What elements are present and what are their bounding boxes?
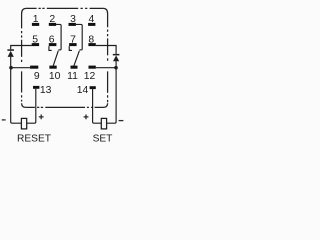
wire pin13 down to RESET coil <box>27 89 36 123</box>
polarity minus (right) <box>119 120 124 122</box>
wire pin14 down to SET coil <box>93 89 102 123</box>
pin 5 pad <box>32 43 39 46</box>
pin 8 pad <box>88 43 95 46</box>
wire pin3 to contact pivot <box>76 24 82 49</box>
wire pin2 to contact pivot <box>56 24 61 49</box>
svg-text:9: 9 <box>34 71 40 82</box>
pin 9 pad <box>30 66 38 69</box>
right junction node <box>114 66 118 70</box>
wires and components <box>11 24 116 123</box>
wire junction to pin9 <box>11 67 31 69</box>
svg-text:14: 14 <box>77 85 89 96</box>
SET coil <box>101 118 106 128</box>
wire pin8 to right diode <box>96 46 116 54</box>
RESET coil <box>21 118 26 128</box>
pin 1 pad <box>32 23 39 26</box>
polarity minus (left) <box>2 119 6 121</box>
pin 3 pad <box>69 23 76 26</box>
contact pivot bar (pin3) <box>80 49 83 51</box>
left diode D1 anode triangle <box>8 51 14 57</box>
pin 4 pad <box>88 23 95 26</box>
pin 7 pad <box>69 43 77 46</box>
contact pivot bar (pin2) <box>58 49 61 51</box>
wire junction to pin12 <box>96 67 116 69</box>
polarity plus (left) <box>39 115 44 120</box>
left border <box>21 14 23 102</box>
pin 10 pad <box>49 66 56 69</box>
svg-text:SET: SET <box>93 134 113 145</box>
top border <box>22 8 27 13</box>
wire right column down to SET coil <box>107 68 116 124</box>
wire right diode to junction <box>115 61 117 67</box>
pin 14 pad <box>90 86 96 89</box>
polarity plus (right) <box>84 115 89 120</box>
svg-text:10: 10 <box>49 71 61 82</box>
left diode D1 cathode bar <box>7 49 14 51</box>
pin 12 pad <box>89 66 96 69</box>
pin 6 pad <box>49 43 57 46</box>
movable contact arm to pin 11 <box>74 51 80 66</box>
right diode D2 anode triangle <box>113 55 119 61</box>
wire left column down to RESET coil <box>11 68 22 124</box>
contact NO stub from pin 7 <box>69 46 72 50</box>
svg-text:13: 13 <box>40 85 52 96</box>
svg-text:RESET: RESET <box>17 134 51 145</box>
left junction node <box>9 66 13 70</box>
movable contact arm to pin 10 <box>53 51 58 66</box>
pin 11 pad <box>71 66 78 69</box>
pin 13 pad <box>33 86 39 89</box>
right diode D2 cathode bar <box>113 54 120 56</box>
svg-text:11: 11 <box>67 71 78 82</box>
contact NO stub from pin 6 <box>49 46 52 50</box>
right border <box>107 14 109 103</box>
wire pin5 to left diode <box>11 46 32 50</box>
svg-text:12: 12 <box>84 71 96 82</box>
bottom border <box>26 106 103 108</box>
case outline (phantom chain line) <box>22 8 108 107</box>
pin 2 pad <box>49 23 56 26</box>
wire left diode to junction <box>10 57 12 68</box>
